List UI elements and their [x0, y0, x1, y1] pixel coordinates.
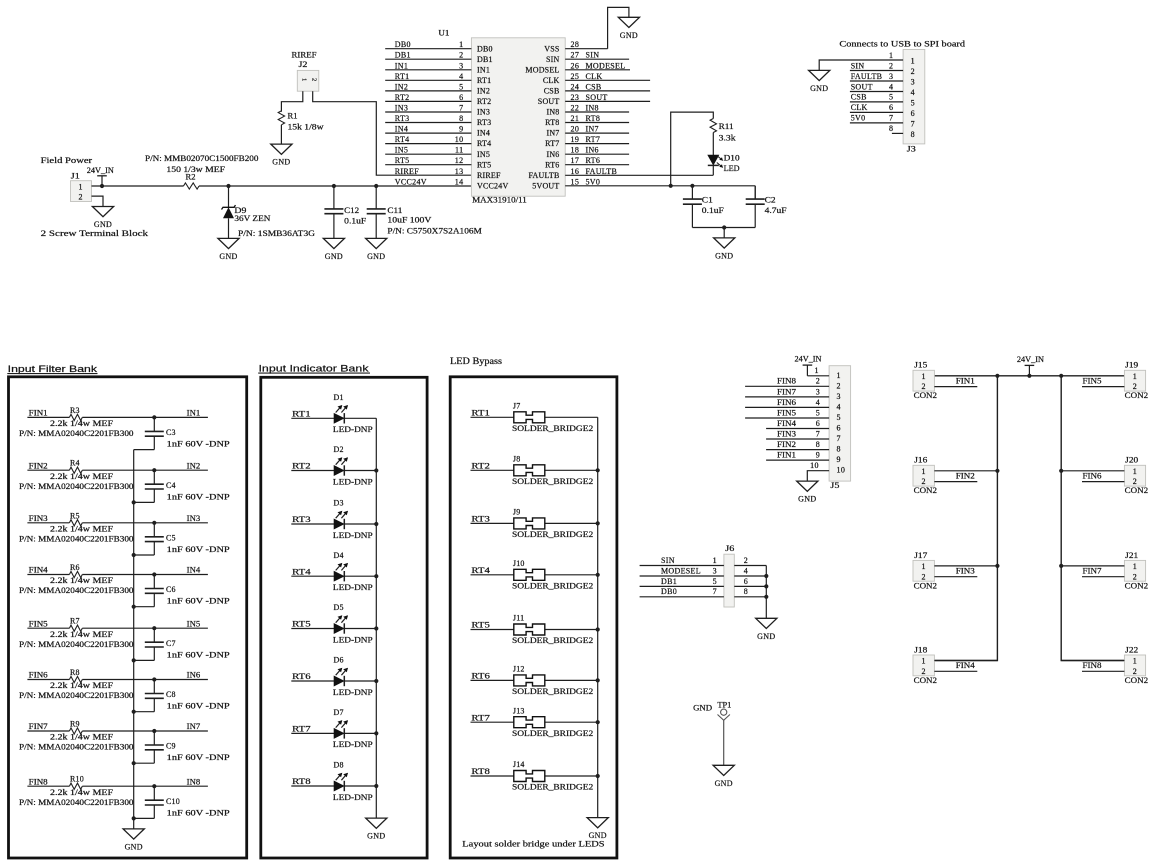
svg-text:IN7: IN7 [586, 125, 599, 134]
op-amp U1 MAX31910/11 IC body [438, 29, 565, 205]
svg-text:26: 26 [571, 61, 580, 70]
net label IN8 [187, 777, 201, 786]
ground at J1 [92, 207, 113, 230]
svg-text:C11: C11 [387, 206, 402, 215]
junction on filter rail [132, 710, 136, 714]
wire filter GND rail [133, 450, 135, 829]
net label FIN3 [956, 566, 975, 575]
net label FIN5 [29, 619, 48, 628]
connector J18 CON2 [913, 645, 937, 685]
svg-text:RT3: RT3 [395, 114, 410, 123]
junction IN8 node [152, 784, 156, 788]
LED D2 [333, 445, 373, 486]
net label RT5 (indicator) [292, 620, 311, 629]
ground at D9 [218, 238, 239, 261]
wire U1 pin 21 [565, 122, 629, 124]
junction left bus top [995, 374, 999, 378]
pin label 13 RIREF [395, 167, 464, 176]
svg-text:J1: J1 [71, 172, 80, 181]
svg-text:J11: J11 [513, 614, 524, 623]
svg-text:LED-DNP: LED-DNP [333, 477, 373, 486]
svg-text:LED-DNP: LED-DNP [333, 425, 373, 434]
wire RT1 row (indicator) [291, 417, 376, 419]
svg-text:CSB: CSB [544, 87, 560, 96]
svg-text:FIN7: FIN7 [777, 387, 796, 396]
solder bridge J11 [512, 614, 593, 646]
net label RT2 pin 6 [395, 93, 464, 102]
solder bridge J8 [512, 454, 593, 486]
svg-text:RT8: RT8 [545, 118, 559, 127]
svg-text:RT5: RT5 [471, 621, 490, 630]
svg-text:FIN7: FIN7 [1083, 566, 1102, 575]
wire U1 pin 26 [565, 69, 630, 71]
svg-text:RT4: RT4 [292, 567, 311, 576]
svg-text:J22: J22 [1125, 645, 1138, 654]
svg-text:IN8: IN8 [546, 108, 559, 117]
pin label 6 [744, 577, 748, 586]
svg-text:P/N: MMA02040C2201FB300: P/N: MMA02040C2201FB300 [19, 586, 134, 595]
wire J6 pin4 [734, 575, 766, 577]
svg-text:2: 2 [922, 572, 926, 581]
wire U1 pin 18 [565, 153, 629, 155]
wire U1 pin 17 [565, 164, 629, 166]
net label RT7 (bypass) [471, 713, 490, 722]
net label FIN6 [1083, 471, 1102, 480]
svg-text:IN7: IN7 [546, 129, 559, 138]
wire U1 pin 23 [565, 100, 650, 102]
svg-text:RT8: RT8 [471, 767, 490, 776]
test point TP1 [693, 701, 731, 721]
net label FIN1 [29, 409, 48, 418]
junction J6 rail pin8 [764, 595, 768, 599]
svg-text:J5: J5 [830, 481, 839, 490]
svg-text:R7: R7 [70, 617, 80, 626]
junction 5V0 at R11 branch [669, 184, 673, 188]
net label FIN3 7 [777, 429, 820, 438]
svg-text:2: 2 [459, 51, 463, 60]
ground at C12 [323, 238, 344, 261]
svg-text:P/N: MMA02040C2201FB300: P/N: MMA02040C2201FB300 [19, 743, 134, 752]
svg-text:8: 8 [837, 445, 841, 454]
wire RT6 row (bypass) [471, 679, 598, 681]
net label IN2 [187, 461, 201, 470]
svg-text:SOUT: SOUT [851, 82, 873, 91]
svg-text:SIN: SIN [546, 55, 560, 64]
ground filter bank [123, 829, 144, 852]
net label FIN6 [29, 671, 48, 680]
svg-text:4.7uF: 4.7uF [765, 206, 788, 215]
junction on indicator rail [374, 784, 378, 788]
net label RT5 pin 12 [395, 156, 464, 165]
svg-text:RT5: RT5 [395, 156, 410, 165]
svg-text:C3: C3 [166, 428, 176, 437]
net label CLK 6 [851, 103, 894, 112]
wire J18 pin1 to bus [934, 660, 997, 662]
svg-text:17: 17 [571, 156, 580, 165]
wire J5 pin8 FIN2 [766, 449, 829, 451]
net label RT6 (indicator) [292, 672, 311, 681]
connector J16 CON2 [913, 456, 937, 496]
svg-text:SIN: SIN [851, 61, 865, 70]
svg-text:MODESEL: MODESEL [586, 61, 626, 70]
svg-text:FIN6: FIN6 [29, 671, 48, 680]
U1 pin names [477, 44, 560, 190]
svg-text:IN4: IN4 [187, 566, 201, 575]
caption 2 Screw Terminal Block [41, 228, 149, 238]
svg-text:LED-DNP: LED-DNP [333, 740, 373, 749]
svg-text:VCC24V: VCC24V [395, 177, 427, 186]
ground at J6 [756, 618, 777, 641]
svg-text:IN8: IN8 [187, 777, 201, 786]
wire U1 pin 5 IN2 [385, 90, 471, 92]
svg-text:J9: J9 [513, 508, 521, 517]
svg-text:RT6: RT6 [471, 672, 490, 681]
capacitor C5 1nF [134, 523, 231, 555]
svg-text:2: 2 [1133, 477, 1137, 486]
svg-text:DB0: DB0 [661, 587, 677, 596]
svg-text:1nF 60V -DNP: 1nF 60V -DNP [167, 753, 231, 762]
wire U1 pin 9 IN4 [385, 132, 471, 134]
pin label 16 FAULTB [571, 167, 618, 176]
svg-text:2 Screw Terminal Block: 2 Screw Terminal Block [41, 228, 149, 238]
svg-text:FIN6: FIN6 [777, 398, 796, 407]
wire J5 pin5 FIN5 [745, 417, 829, 419]
wire J6 pin7 DB0 [640, 596, 724, 598]
svg-text:2: 2 [922, 477, 926, 486]
svg-text:5V0: 5V0 [851, 114, 866, 123]
svg-text:1nF 60V -DNP: 1nF 60V -DNP [167, 440, 231, 449]
junction 5V0 at C1 [690, 184, 694, 188]
connector J17 CON2 [913, 551, 937, 591]
net label FIN2 [956, 471, 975, 480]
svg-text:FIN1: FIN1 [777, 451, 796, 460]
svg-text:1: 1 [1133, 657, 1137, 666]
net label IN4 pin 9 [395, 125, 464, 134]
junction on bypass rail [596, 521, 600, 525]
net label RT6 (bypass) [471, 672, 490, 681]
wire FIN8 row [27, 785, 208, 787]
LED D3 [333, 499, 373, 540]
pin label 28 [571, 40, 580, 49]
pin label 24 CSB [571, 82, 602, 91]
svg-text:GND: GND [715, 779, 733, 788]
net label DB1 pin 2 [395, 51, 464, 60]
svg-text:3: 3 [911, 78, 915, 87]
svg-text:D2: D2 [334, 445, 344, 454]
resistor R1 15k 1/8w [278, 111, 324, 132]
wire U1 pin 22 [565, 111, 629, 113]
svg-text:SOUT: SOUT [586, 93, 608, 102]
pin label 17 RT6 [571, 156, 601, 165]
svg-text:R3: R3 [70, 406, 80, 415]
svg-text:SIN: SIN [661, 556, 675, 565]
svg-text:3: 3 [816, 387, 820, 396]
svg-text:RT5: RT5 [477, 160, 491, 169]
svg-text:1: 1 [713, 556, 717, 565]
wire RT5 row (indicator) [291, 628, 376, 630]
svg-text:DB1: DB1 [477, 55, 493, 64]
svg-text:11: 11 [455, 146, 464, 155]
capacitor C4 1nF [134, 470, 231, 502]
wire U1 pin 16 [565, 174, 713, 176]
connector J15 CON2 [913, 361, 937, 401]
wire J1 pin2 to GND [92, 196, 104, 206]
box Input Indicator Bank frame [261, 377, 427, 858]
svg-text:5V0: 5V0 [586, 177, 601, 186]
svg-text:1: 1 [814, 366, 818, 375]
svg-text:IN1: IN1 [395, 61, 408, 70]
wire J5 pin7 FIN3 [766, 438, 829, 440]
svg-text:3: 3 [889, 72, 893, 81]
wire U1 pin 28 [565, 48, 607, 50]
svg-text:8: 8 [744, 587, 748, 596]
svg-text:CON2: CON2 [1125, 391, 1148, 400]
svg-text:GND: GND [367, 832, 385, 841]
svg-text:7: 7 [713, 587, 717, 596]
svg-text:FIN3: FIN3 [29, 514, 48, 523]
svg-text:D10: D10 [724, 154, 740, 163]
svg-text:R5: R5 [70, 511, 80, 520]
net label FIN5 [1083, 376, 1102, 385]
svg-text:1: 1 [837, 371, 841, 380]
title Connects to USB to SPI board [839, 39, 966, 49]
svg-text:D3: D3 [334, 499, 344, 508]
wire J20 pin1 to bus [1061, 470, 1124, 472]
svg-text:Connects to USB to SPI board: Connects to USB to SPI board [839, 39, 966, 49]
svg-text:0.1uF: 0.1uF [702, 206, 725, 215]
svg-text:6: 6 [459, 93, 463, 102]
wire J18 pin2 FIN4 [934, 670, 977, 672]
svg-text:IN1: IN1 [187, 409, 201, 418]
wire J5 pin9 FIN1 [766, 459, 829, 461]
svg-text:2: 2 [79, 193, 83, 202]
svg-text:8: 8 [911, 130, 915, 139]
svg-text:3: 3 [459, 61, 463, 70]
svg-text:FIN3: FIN3 [956, 566, 975, 575]
svg-text:MODSEL: MODSEL [525, 65, 559, 74]
svg-text:LED Bypass: LED Bypass [450, 356, 503, 366]
svg-text:27: 27 [571, 51, 580, 60]
svg-text:2.2k 1/4w MEF: 2.2k 1/4w MEF [50, 576, 114, 585]
net label IN2 pin 5 [395, 82, 464, 91]
svg-text:RT4: RT4 [395, 135, 410, 144]
net label RT1 pin 4 [395, 72, 464, 81]
wire U1 pin 11 IN5 [385, 153, 471, 155]
svg-text:GND: GND [219, 252, 237, 261]
svg-text:2.2k 1/4w MEF: 2.2k 1/4w MEF [50, 630, 114, 639]
junction on filter rail [132, 553, 136, 557]
svg-text:D6: D6 [334, 656, 344, 665]
net label SOUT 4 [851, 82, 894, 91]
wire FIN7 row [27, 730, 208, 732]
svg-text:1: 1 [459, 40, 463, 49]
svg-text:2: 2 [922, 382, 926, 391]
svg-text:FIN2: FIN2 [29, 461, 48, 470]
svg-text:1: 1 [922, 467, 926, 476]
svg-text:Layout solder bridge under LED: Layout solder bridge under LEDS [462, 838, 605, 848]
svg-text:R8: R8 [70, 668, 80, 677]
svg-text:R11: R11 [719, 122, 734, 131]
connector J2 RIREF [292, 51, 319, 92]
svg-text:GND: GND [693, 704, 712, 713]
net label IN5 [187, 619, 201, 628]
svg-text:4: 4 [911, 88, 915, 97]
LED D10 [708, 154, 740, 174]
wire J21 pin2 FIN7 [1082, 576, 1124, 578]
net label IN3 [187, 514, 201, 523]
svg-text:TP1: TP1 [717, 701, 731, 710]
net label SIN 2 [851, 61, 894, 70]
svg-text:RT4: RT4 [477, 139, 491, 148]
connector J22 CON2 [1124, 645, 1148, 685]
net label FIN6 4 [777, 398, 820, 407]
svg-text:1: 1 [79, 182, 83, 191]
svg-text:RIREF: RIREF [395, 167, 419, 176]
svg-text:7: 7 [837, 434, 841, 443]
net label FIN2 8 [777, 440, 820, 449]
net label FAULTB 3 [851, 72, 894, 81]
svg-text:1nF 60V -DNP: 1nF 60V -DNP [167, 597, 231, 606]
svg-text:P/N: MMA02040C2201FB300: P/N: MMA02040C2201FB300 [19, 798, 134, 807]
solder bridge J10 [512, 559, 593, 591]
wire RT4 row (bypass) [471, 574, 598, 576]
svg-text:2.2k 1/4w MEF: 2.2k 1/4w MEF [50, 472, 114, 481]
connector J1 [71, 172, 92, 202]
svg-text:2.2k 1/4w MEF: 2.2k 1/4w MEF [50, 525, 114, 534]
svg-text:RT4: RT4 [471, 566, 490, 575]
svg-text:1: 1 [889, 51, 893, 60]
svg-text:R10: R10 [70, 775, 84, 784]
svg-text:12: 12 [455, 156, 464, 165]
pin label 23 SOUT [571, 93, 608, 102]
svg-text:24V_IN: 24V_IN [87, 166, 114, 175]
svg-text:5: 5 [837, 413, 841, 422]
wire U1 pin 27 [565, 58, 629, 60]
net label RT1 (bypass) [471, 409, 490, 418]
junction on bypass rail [596, 468, 600, 472]
svg-text:6: 6 [744, 577, 748, 586]
net label FIN1 9 [777, 451, 820, 460]
resistor R3 2.2k [19, 406, 134, 438]
svg-text:2.2k 1/4w MEF: 2.2k 1/4w MEF [50, 733, 114, 742]
pin label 22 IN8 [571, 104, 599, 113]
svg-text:J7: J7 [513, 401, 521, 410]
wire J3 pin1 to GND [819, 60, 903, 70]
svg-text:FIN4: FIN4 [956, 661, 975, 670]
net label FIN7 [1083, 566, 1102, 575]
junction on indicator rail [374, 731, 378, 735]
wire J2 pin2 to U1 RIREF pin13 [313, 91, 472, 175]
svg-text:GND: GND [367, 252, 385, 261]
wire J19 pin2 FIN5 [1082, 386, 1124, 388]
ground at J5 [797, 481, 818, 504]
net label RT3 (bypass) [471, 515, 490, 524]
wire U1 pin 25 [565, 79, 650, 81]
resistor R2 150 1/3w [145, 154, 258, 189]
svg-text:SOLDER_BRIDGE2: SOLDER_BRIDGE2 [512, 687, 593, 696]
svg-text:P/N: 1SMB36AT3G: P/N: 1SMB36AT3G [238, 229, 315, 238]
wire J3 pin3 FAULTB [850, 80, 903, 82]
svg-text:1: 1 [1133, 467, 1137, 476]
svg-text:20: 20 [571, 125, 580, 134]
connector J21 CON2 [1124, 551, 1148, 591]
svg-text:28: 28 [571, 40, 580, 49]
svg-text:J15: J15 [914, 361, 927, 370]
svg-text:FIN2: FIN2 [777, 440, 796, 449]
svg-text:FIN2: FIN2 [956, 471, 975, 480]
junction bottom rail [722, 225, 726, 229]
svg-text:8: 8 [816, 440, 820, 449]
junction on bypass rail [596, 720, 600, 724]
wire J3 pin2 SIN [850, 70, 903, 72]
svg-text:14: 14 [455, 177, 464, 186]
capacitor C11 10uF 100V [367, 186, 482, 238]
svg-text:FIN5: FIN5 [777, 408, 796, 417]
svg-text:24V_IN: 24V_IN [1017, 355, 1044, 364]
solder bridge J9 [512, 508, 593, 540]
LED D1 [333, 393, 373, 434]
svg-text:RT1: RT1 [395, 72, 410, 81]
junction 24V tap field [1027, 374, 1031, 378]
pin label 26 MODESEL [571, 61, 626, 70]
svg-text:10: 10 [837, 466, 846, 475]
wire RT5 row (bypass) [471, 629, 598, 631]
wire J20 pin2 FIN6 [1082, 481, 1124, 483]
svg-text:RT3: RT3 [292, 515, 311, 524]
diode D9 36V zener [222, 186, 316, 238]
svg-text:RT7: RT7 [545, 139, 559, 148]
svg-text:FIN8: FIN8 [1083, 661, 1102, 670]
wire TP1 to GND [723, 720, 725, 765]
svg-text:10: 10 [810, 461, 819, 470]
wire bypass GND rail [597, 417, 599, 817]
net label FIN5 5 [777, 408, 820, 417]
svg-text:RT2: RT2 [292, 462, 311, 471]
svg-text:C5: C5 [166, 533, 176, 542]
svg-text:C4: C4 [166, 481, 176, 490]
wire U1 pin 8 RT3 [385, 122, 471, 124]
junction on bypass rail [596, 774, 600, 778]
net label FIN8 [1083, 661, 1102, 670]
wire J6 pin3 MODESEL [640, 575, 724, 577]
ground at TP1 [713, 765, 734, 788]
net label RT2 (bypass) [471, 462, 490, 471]
net label RT3 (indicator) [292, 515, 311, 524]
svg-text:7: 7 [889, 114, 893, 123]
svg-text:R4: R4 [70, 459, 80, 468]
svg-text:IN3: IN3 [395, 104, 408, 113]
power symbol 24V_IN at J5 [795, 354, 822, 375]
svg-text:LED: LED [724, 164, 740, 173]
svg-text:1nF 60V -DNP: 1nF 60V -DNP [167, 808, 231, 817]
wire U1 pin 2 DB1 [385, 58, 471, 60]
svg-text:RT6: RT6 [545, 160, 559, 169]
capacitor C8 1nF [134, 680, 231, 712]
net label FIN2 [29, 461, 48, 470]
svg-text:FIN1: FIN1 [29, 409, 48, 418]
svg-text:RT7: RT7 [292, 725, 311, 734]
resistor R7 2.2k [19, 617, 134, 649]
wire U1 pin 1 DB0 [385, 48, 471, 50]
svg-text:C9: C9 [166, 742, 176, 751]
svg-text:J10: J10 [513, 559, 525, 568]
svg-text:R6: R6 [70, 563, 80, 572]
net label RT7 (indicator) [292, 725, 311, 734]
svg-text:24V_IN: 24V_IN [795, 354, 822, 363]
wire U1 pin 20 [565, 132, 629, 134]
svg-text:P/N: MMA02040C2201FB300: P/N: MMA02040C2201FB300 [19, 534, 134, 543]
svg-text:J20: J20 [1125, 456, 1138, 465]
